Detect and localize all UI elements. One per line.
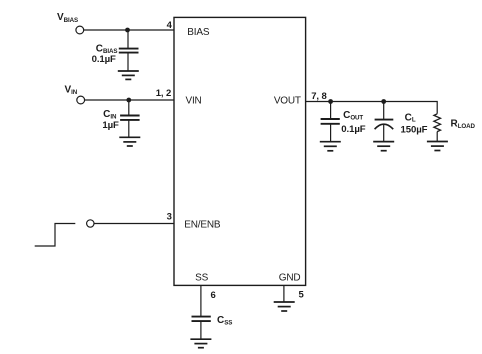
capacitor CBIAS xyxy=(119,48,139,50)
svg-text:3: 3 xyxy=(167,211,172,222)
wire CSS bottom xyxy=(200,321,202,339)
capacitor COUT xyxy=(321,118,340,120)
ground CIN xyxy=(119,137,140,146)
wire CIN top xyxy=(128,100,130,116)
wire CBIAS bottom xyxy=(127,53,129,71)
svg-text:GND: GND xyxy=(279,273,301,284)
ground CSS xyxy=(190,339,211,348)
wire VBIAS to pin 4 xyxy=(84,29,174,31)
junction dot VBIAS xyxy=(125,28,130,33)
wire SS pin 6 xyxy=(200,285,202,316)
wire CBIAS top xyxy=(127,30,129,49)
svg-text:0.1µF: 0.1µF xyxy=(341,124,365,135)
ground CL xyxy=(373,142,394,151)
capacitor CIN xyxy=(120,115,140,117)
resistor RLOAD xyxy=(434,114,441,132)
ground CBIAS xyxy=(118,71,139,79)
svg-text:EN/ENB: EN/ENB xyxy=(184,220,221,231)
capacitor CSS xyxy=(192,316,211,318)
svg-text:5: 5 xyxy=(299,289,305,300)
wire EN to pin 3 xyxy=(94,223,174,225)
wire VIN to pins 1,2 xyxy=(85,99,174,101)
wire CL bottom xyxy=(383,125,385,142)
node VBIAS terminal xyxy=(76,26,84,34)
wire RLOAD bottom xyxy=(436,132,438,142)
ground GND pin xyxy=(274,302,295,311)
node EN terminal xyxy=(87,220,94,227)
wire GND pin 5 xyxy=(283,285,285,302)
ground RLOAD xyxy=(427,142,448,151)
wire CL top xyxy=(383,102,385,120)
svg-text:6: 6 xyxy=(211,290,216,301)
svg-text:BIAS: BIAS xyxy=(187,27,210,38)
junction dot CL xyxy=(381,99,386,104)
op-amp U1 IC body xyxy=(174,17,306,285)
svg-text:7, 8: 7, 8 xyxy=(311,91,326,102)
node VIN terminal xyxy=(77,96,85,104)
svg-text:1, 2: 1, 2 xyxy=(156,88,171,99)
wire COUT bottom xyxy=(330,124,332,142)
junction dot COUT xyxy=(328,99,333,104)
wire VOUT bus xyxy=(306,102,438,114)
ground COUT xyxy=(320,142,341,151)
svg-text:0.1µF: 0.1µF xyxy=(92,54,116,65)
wire COUT top xyxy=(330,102,332,120)
svg-text:4: 4 xyxy=(167,20,173,31)
svg-text:VOUT: VOUT xyxy=(274,96,301,107)
enable step waveform xyxy=(35,224,76,247)
svg-text:1µF: 1µF xyxy=(102,120,119,131)
capacitor CL polarized xyxy=(375,119,394,121)
svg-text:SS: SS xyxy=(195,273,208,284)
svg-text:150µF: 150µF xyxy=(401,125,428,136)
wire CIN bottom xyxy=(128,120,130,137)
junction dot VIN xyxy=(126,98,131,103)
svg-text:VIN: VIN xyxy=(186,96,202,107)
